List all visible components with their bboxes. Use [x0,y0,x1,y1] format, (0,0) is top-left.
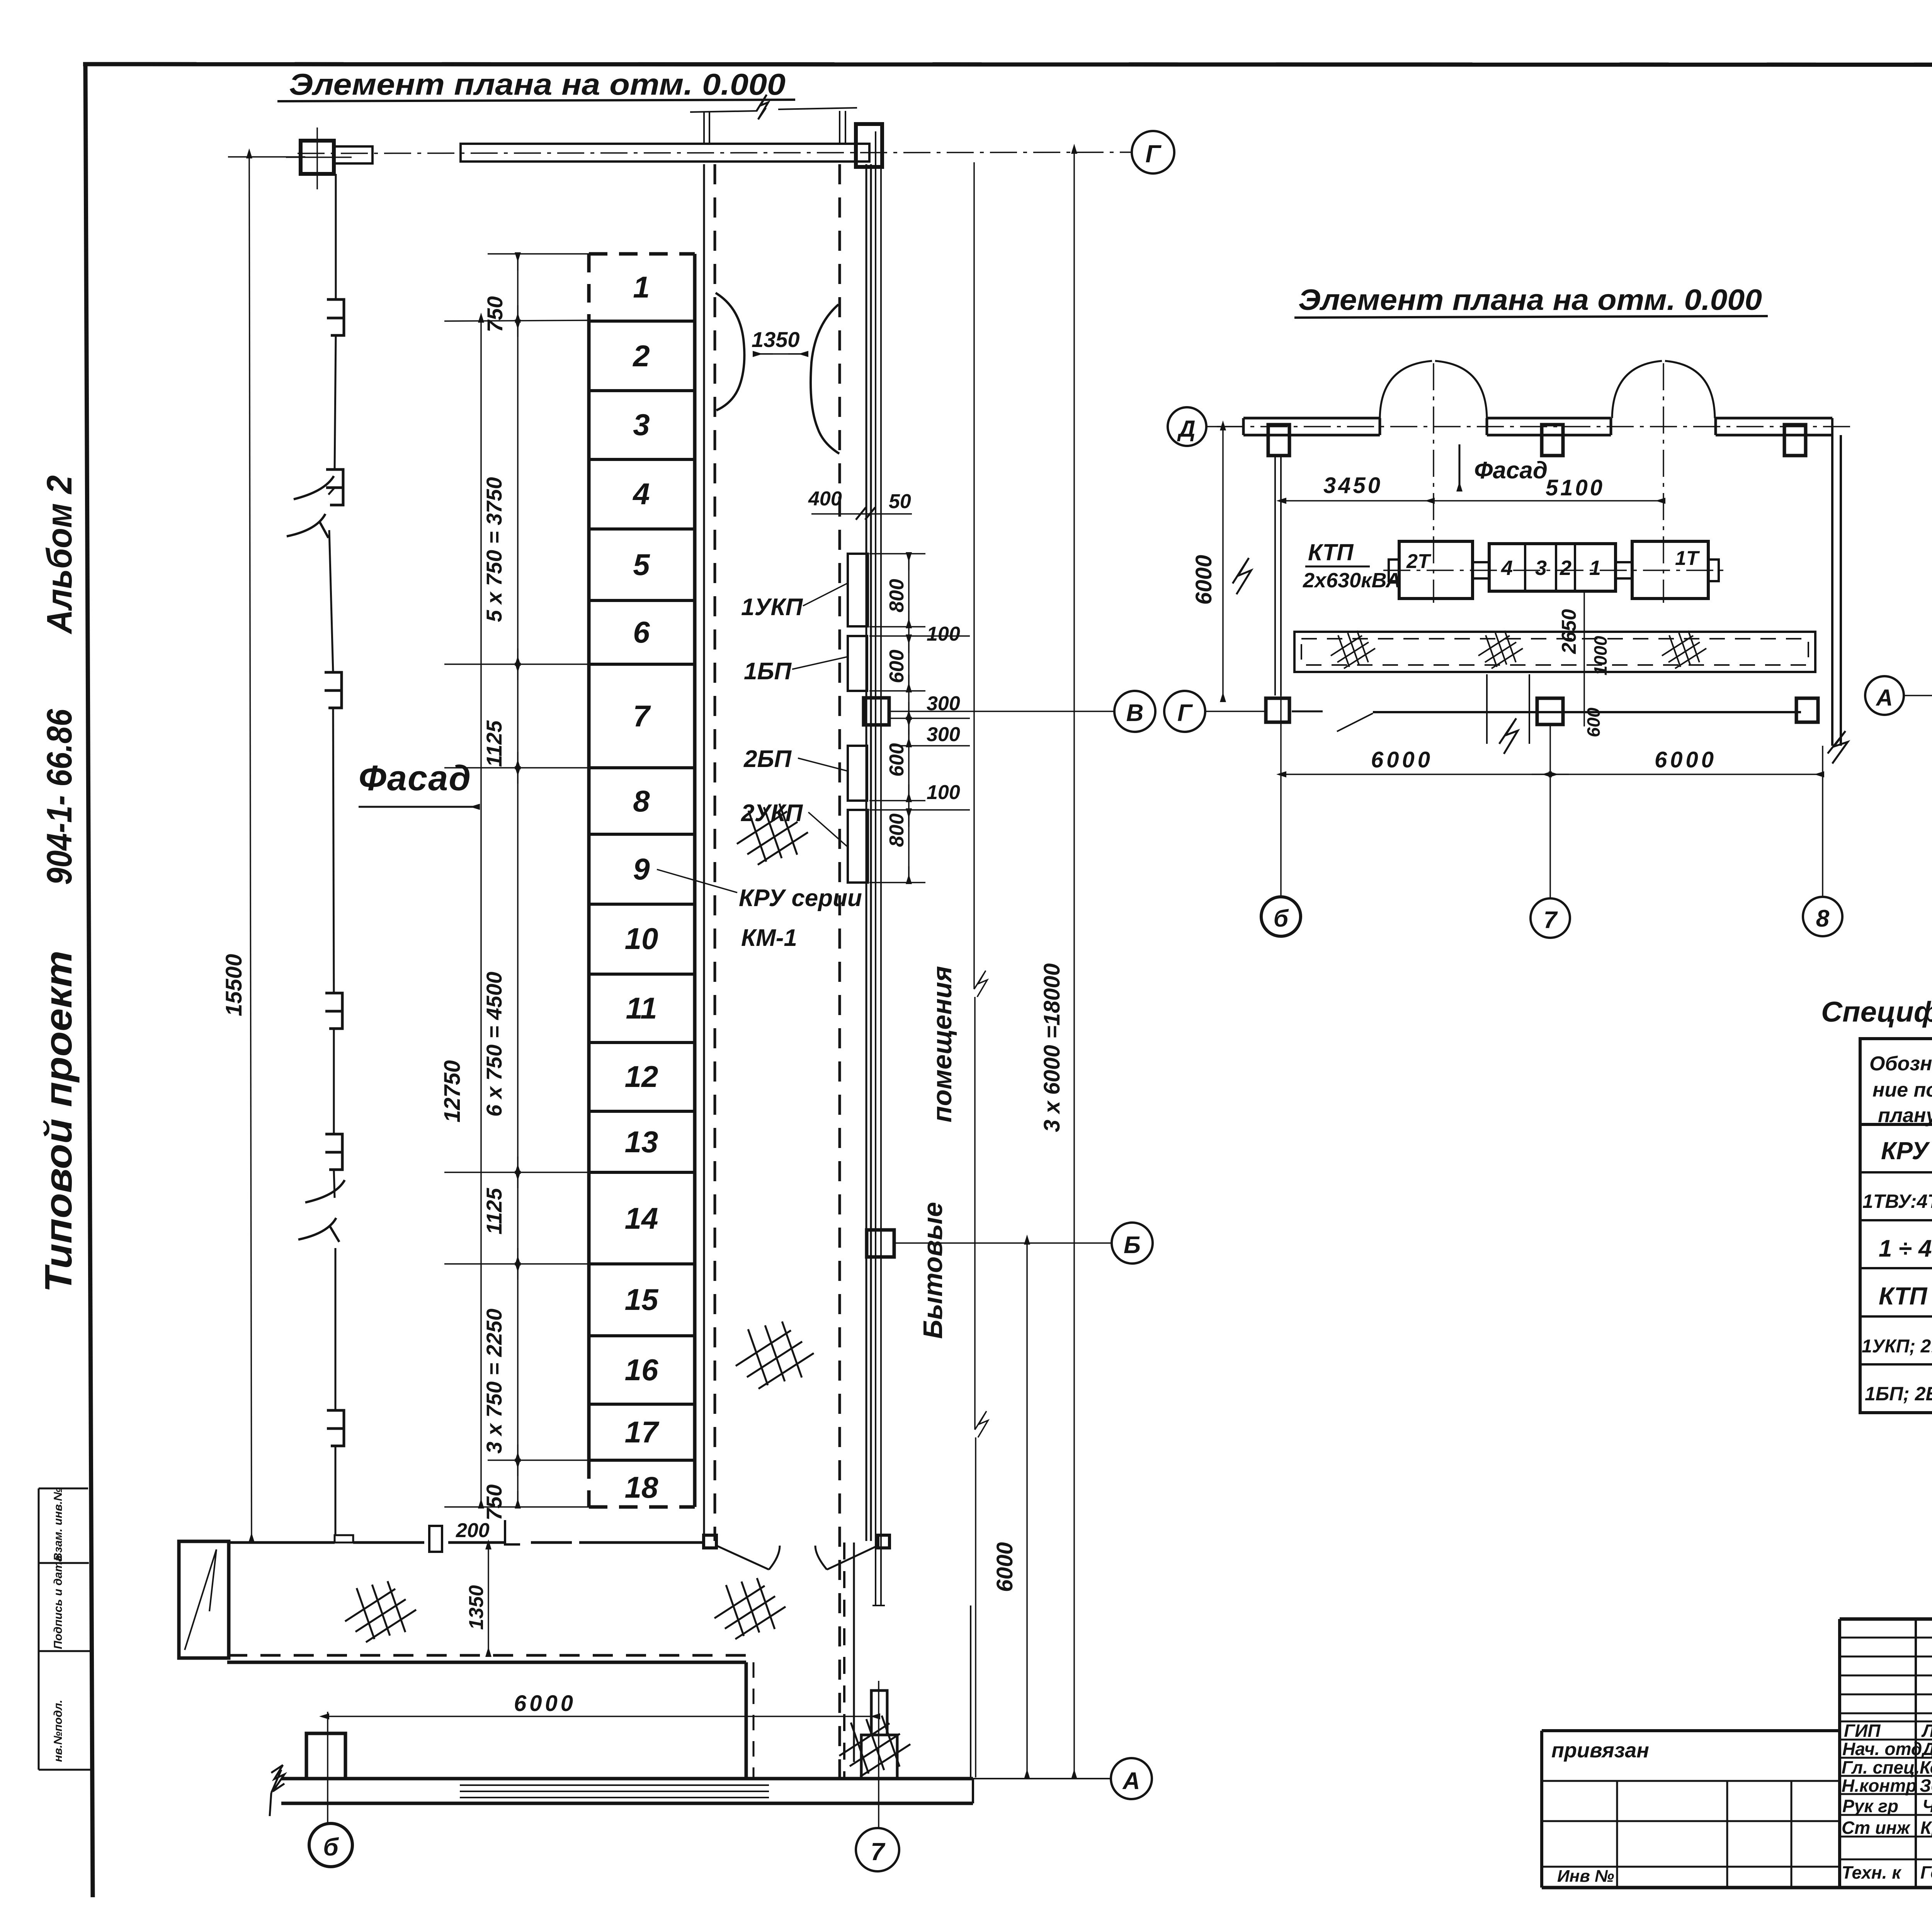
dim 6000 Б-А [1026,1243,1028,1777]
svg-text:12750: 12750 [440,1060,465,1122]
bottom-left stamp column [39,1488,90,1770]
svg-text:3: 3 [633,408,650,442]
dim 15500 vertical line [249,157,252,1541]
corridor lower right wall [745,1662,748,1777]
svg-text:нв.№подл.: нв.№подл. [52,1700,65,1762]
Д axis short line [1206,426,1243,427]
corridor right wall double [866,164,867,1541]
Фасад arrow [359,806,478,808]
dim vertical line mid [1583,591,1585,726]
axis В circle [1114,691,1155,732]
room bottom solid wall [227,1661,746,1664]
svg-text:8: 8 [1816,905,1830,932]
hatch mark Бытовые area [736,1321,814,1389]
svg-text:300: 300 [927,723,960,746]
wall break symbol 2 [298,1180,345,1242]
axis Г rail leader [1337,713,1373,731]
svg-text:1350: 1350 [752,327,800,352]
svg-text:КРУ: КРУ [1881,1137,1930,1165]
svg-text:1125: 1125 [482,1188,506,1235]
svg-text:6 x 750 = 4500: 6 x 750 = 4500 [482,972,506,1117]
hatch room1 [345,1581,416,1642]
svg-text:15: 15 [625,1282,659,1316]
equipment 1БП box [848,636,867,691]
svg-text:Гор ткп: Гор ткп [1920,1862,1932,1883]
svg-text:КРУ серии: КРУ серии [739,885,862,912]
svg-text:17: 17 [625,1415,660,1449]
svg-text:600: 600 [886,650,908,683]
channel hatch 1 [1331,631,1375,668]
cell divider lines [589,321,695,1460]
door arcs opening 1 [1380,361,1432,418]
row 4 КТП [1879,1276,1932,1319]
column at beam right / axis Г [856,124,882,167]
svg-text:1: 1 [1589,556,1601,580]
window symbol 3 [325,672,342,708]
svg-text:2: 2 [632,339,650,373]
axis verticals to circles [1280,456,1282,897]
svg-text:6: 6 [633,615,650,649]
КРУ cells block [589,254,695,1507]
wall axis dash-dot [1217,426,1851,427]
door arcs opening 2 [1612,361,1662,418]
svg-text:5: 5 [633,548,650,582]
row lines [1860,1123,1932,1126]
svg-text:1УКП: 1УКП [741,594,803,621]
row 2 ТВУ [1862,1179,1932,1223]
entrance box bottom-left [179,1541,229,1658]
lower dashed walls near 7 [843,1543,845,1777]
svg-text:КТП: КТП [1879,1282,1928,1310]
axis А circle right plan [1865,676,1904,715]
window symbol 1 [327,299,344,335]
right wall double [1831,418,1833,746]
svg-text:2БП: 2БП [743,746,792,772]
transformer row axis dash-dot [1383,570,1723,571]
equipment 1УКП box [848,554,868,626]
facade wall with window marks [328,174,336,1535]
svg-text:привязан: привязан [1551,1739,1649,1762]
row 3 1-4 [1879,1228,1932,1270]
monorail double line [875,131,876,1605]
signature table rows upper [1840,1638,1932,1859]
axis line door2 vertical [1663,363,1664,603]
beam axis dash-dot [298,152,1132,153]
svg-text:1УКП; 2УКП: 1УКП; 2УКП [1862,1336,1932,1357]
svg-text:13: 13 [625,1125,658,1159]
svg-text:1БП; 2БП: 1БП; 2БП [1865,1383,1932,1405]
svg-text:800: 800 [886,813,908,847]
svg-text:3 x 750 = 2250: 3 x 750 = 2250 [482,1309,506,1454]
column Д-8 [1784,425,1806,456]
rail lower continuation [970,1605,971,1777]
svg-text:КТП: КТП [1308,539,1354,565]
svg-text:7: 7 [871,1838,886,1866]
top beam [461,144,869,162]
svg-text:Золотарёва: Золотарёва [1920,1776,1932,1796]
svg-text:Леонов: Леонов [1921,1721,1932,1741]
corridor dashed wall [714,164,716,1541]
svg-text:1 ÷ 4: 1 ÷ 4 [1879,1235,1932,1262]
svg-text:16: 16 [625,1353,658,1387]
axis В line [889,711,1114,712]
dim 1350 vertical [488,1548,489,1655]
svg-text:5100: 5100 [1546,475,1605,500]
svg-text:6000: 6000 [1191,555,1216,605]
svg-text:3 х 6000 =18000: 3 х 6000 =18000 [1039,963,1065,1132]
svg-text:КМ-1: КМ-1 [741,925,797,951]
svg-text:4: 4 [1501,556,1513,580]
svg-text:Взам. инв.№: Взам. инв.№ [52,1488,65,1561]
corridor door leaf right [811,304,839,454]
axis 8 circle mid [1803,897,1842,936]
svg-text:ГИП: ГИП [1844,1721,1881,1741]
top wall segments [1243,418,1832,435]
channel hatch 2 [1478,631,1523,668]
svg-text:Типовой проект: Типовой проект [37,951,80,1293]
svg-text:2х630кВА: 2х630кВА [1303,569,1401,592]
cable channel strip [1294,632,1815,672]
window symbol 4 [325,993,342,1029]
corridor wall line [703,164,705,1541]
svg-text:Г: Г [1177,700,1193,726]
title underline (middle) [1294,316,1768,318]
svg-text:1: 1 [633,270,650,304]
wall stub at top-left column [334,146,372,163]
svg-text:Подпись и дата: Подпись и дата [52,1555,65,1649]
svg-text:Нач. отд: Нач. отд [1842,1739,1922,1759]
dim line x2521 with breaks [974,162,988,1777]
svg-text:7: 7 [633,699,651,733]
svg-text:Элемент плана на отм. 0.00: Элемент плана на отм. 0.000 [289,67,786,101]
svg-text:помещения: помещения [927,966,957,1122]
axis Г circle [1132,131,1174,173]
svg-text:Элемент плана на отм. 0.000: Элемент плана на отм. 0.000 [1298,284,1762,316]
svg-text:Бытовые: Бытовые [918,1202,948,1339]
strip break left [270,1765,284,1816]
bottom facade wall segments [229,1541,703,1544]
svg-text:400: 400 [808,488,842,510]
equipment 2УКП box [848,810,868,883]
corridor door leaf left [716,293,744,410]
svg-text:Техн. к: Техн. к [1842,1862,1902,1883]
svg-text:А: А [1875,685,1893,711]
svg-text:6000: 6000 [514,1691,576,1716]
svg-text:А: А [1122,1768,1140,1794]
svg-text:2650: 2650 [1558,609,1580,654]
column square bottom corridor right [878,1535,889,1548]
svg-text:Рук гр: Рук гр [1842,1796,1898,1816]
svg-text:50: 50 [889,490,911,513]
equipment 2БП box [848,746,867,801]
svg-text:В: В [1126,700,1144,726]
svg-text:904-1- 66.86: 904-1- 66.86 [40,709,79,885]
svg-text:6000: 6000 [992,1542,1017,1592]
sheet left border [85,64,93,1897]
svg-text:Кравцова: Кравцова [1920,1818,1932,1838]
row 6 БП [1865,1372,1932,1416]
title block outer top line [1840,1617,1932,1621]
lintel line above corridor with break [690,111,757,112]
transformer 1Т [1632,541,1708,599]
svg-text:15500: 15500 [221,954,247,1016]
svg-text:Фасад: Фасад [359,759,471,798]
window symbol 5 [325,1134,342,1170]
column square bottom corridor left [704,1535,716,1548]
svg-text:4: 4 [632,477,650,511]
svg-text:плану: плану [1878,1104,1932,1127]
hatch near column 7 [839,1716,910,1777]
svg-text:Альбом 2: Альбом 2 [40,475,79,634]
table outer frame [1860,1039,1932,1413]
svg-text:6000: 6000 [1655,747,1717,772]
dim 3450 [1285,500,1433,502]
svg-text:б: б [1274,905,1289,932]
svg-text:8: 8 [633,784,650,818]
svg-text:750: 750 [483,296,507,332]
svg-text:18: 18 [625,1470,658,1504]
dim 5100 [1433,500,1664,502]
axis Д circle [1168,407,1206,446]
door leaves bottom corridor [716,1546,780,1570]
chain arrows [517,254,519,1507]
section cut lines below strip [1486,674,1488,744]
svg-text:2Т: 2Т [1406,550,1432,573]
svg-text:1350: 1350 [465,1585,488,1630]
svg-text:3: 3 [1535,556,1547,580]
hatch mark corridor top [737,804,808,865]
sheet top border [83,64,1932,65]
column at axis В [864,698,889,725]
axis Б line [894,1242,1112,1244]
column Г-б [1266,698,1289,722]
floor strip [281,1777,973,1781]
column Г-7 [1537,698,1563,724]
dim 6000 bottom [328,1716,879,1717]
svg-text:1125: 1125 [482,720,506,767]
transformer cell box 4-3-2-1 [1489,544,1616,591]
axis б circle mid [1261,897,1301,936]
dim 6000 left vertical [1222,429,1224,701]
svg-text:Фасад: Фасад [1474,457,1548,484]
door symbol bottom wall [429,1526,442,1552]
svg-text:12: 12 [625,1060,658,1094]
svg-text:Н.контр: Н.контр [1842,1776,1917,1796]
svg-text:1000: 1000 [1590,636,1611,675]
right wall break [1828,731,1848,764]
Фасад arrow down [1459,444,1461,490]
svg-text:5 x 750 = 3750: 5 x 750 = 3750 [482,477,506,622]
svg-text:Кошельский: Кошельский [1920,1757,1932,1777]
axis Б circle [1112,1223,1153,1264]
svg-text:750: 750 [482,1485,506,1520]
column Г-8 [1796,698,1818,722]
transformer 2Т [1399,541,1473,599]
column Д-б [1268,425,1289,456]
channel hatch 3 [1662,631,1706,668]
axis А line bottom [973,1778,1111,1779]
svg-text:11: 11 [626,991,657,1025]
svg-text:1Т: 1Т [1675,547,1700,570]
chain ticks [444,254,589,1507]
svg-text:800: 800 [886,579,908,612]
svg-text:1БП: 1БП [744,658,792,685]
row 1 КРУ [1881,1131,1932,1175]
svg-text:100: 100 [927,781,960,804]
wall section lines above beam [703,112,705,144]
dim 3x6000=18000 [1073,152,1075,1777]
svg-text:Д: Д [1177,416,1195,442]
left wall double line [1274,456,1276,696]
dim chain line [517,254,519,1507]
title underline [277,100,795,101]
svg-text:Давыдов: Давыдов [1921,1739,1932,1759]
window symbol 6 [327,1410,344,1446]
column К1 top-left [301,141,334,174]
axis б vertical + circle [327,1712,328,1823]
right dim chain [908,554,910,883]
dim line 12750 [480,321,482,1507]
svg-text:1ТВУ:4ТВУ: 1ТВУ:4ТВУ [1862,1190,1932,1212]
axis 7 circle mid [1531,898,1570,938]
svg-text:ние по: ние по [1872,1079,1932,1101]
svg-text:Б: Б [1124,1232,1141,1259]
corridor right dashed wall [838,164,841,1777]
signature names [1842,1721,1932,1883]
column at axis б bottom [306,1733,345,1779]
svg-text:Г: Г [1145,140,1162,168]
svg-text:Чапны: Чапны [1922,1796,1932,1816]
svg-text:Спецификация к размещению э: Спецификация к размещению электрооборудо… [1821,996,1932,1028]
room bottom dashed wall [227,1654,746,1657]
corner piece [505,1520,520,1544]
svg-text:10: 10 [625,922,658,956]
Г axis short line to circle [1205,711,1267,712]
svg-text:14: 14 [625,1201,658,1235]
svg-text:Ст инж: Ст инж [1842,1818,1911,1838]
svg-text:100: 100 [927,623,960,645]
hatch near door [714,1578,786,1639]
svg-text:Гл. спец.: Гл. спец. [1842,1757,1920,1777]
stair lines in strip [460,1785,769,1798]
window mark bottom wall [335,1535,353,1543]
svg-text:6000: 6000 [1371,747,1433,772]
column at axis 7 bottom [871,1690,887,1735]
column Д-7 [1542,425,1563,456]
cell numbers [625,270,660,1504]
svg-text:б: б [323,1833,339,1861]
axis Г long rail [1373,711,1801,713]
axis 7 vertical + circle [878,1681,879,1828]
svg-text:3450: 3450 [1323,473,1383,498]
axis Г circle mid [1164,691,1205,732]
svg-text:9: 9 [633,852,650,886]
dim 1350 corridor [755,353,806,355]
signature table verticals [1838,1619,1841,1888]
axis А circle bottom [1111,1758,1152,1799]
svg-text:7: 7 [1544,907,1558,934]
svg-text:2: 2 [1560,556,1571,580]
title block bottom line [1542,1886,1932,1889]
привязан table [1542,1729,1840,1732]
window symbol 2 [326,469,343,505]
wall break symbol [287,476,334,538]
dims 6000 6000 bottom [1285,774,1823,775]
row 5 УКП [1862,1324,1932,1369]
svg-text:200: 200 [456,1519,490,1542]
svg-text:600: 600 [886,743,908,777]
axis line door1 vertical [1433,363,1434,603]
svg-text:Инв №: Инв № [1557,1867,1614,1886]
break on 6000 line [1233,558,1251,594]
column at axis Б [867,1230,894,1257]
svg-text:Обозначе-: Обозначе- [1869,1053,1932,1075]
header texts [1869,1051,1932,1127]
axis Г row rail left stub [1292,711,1323,713]
